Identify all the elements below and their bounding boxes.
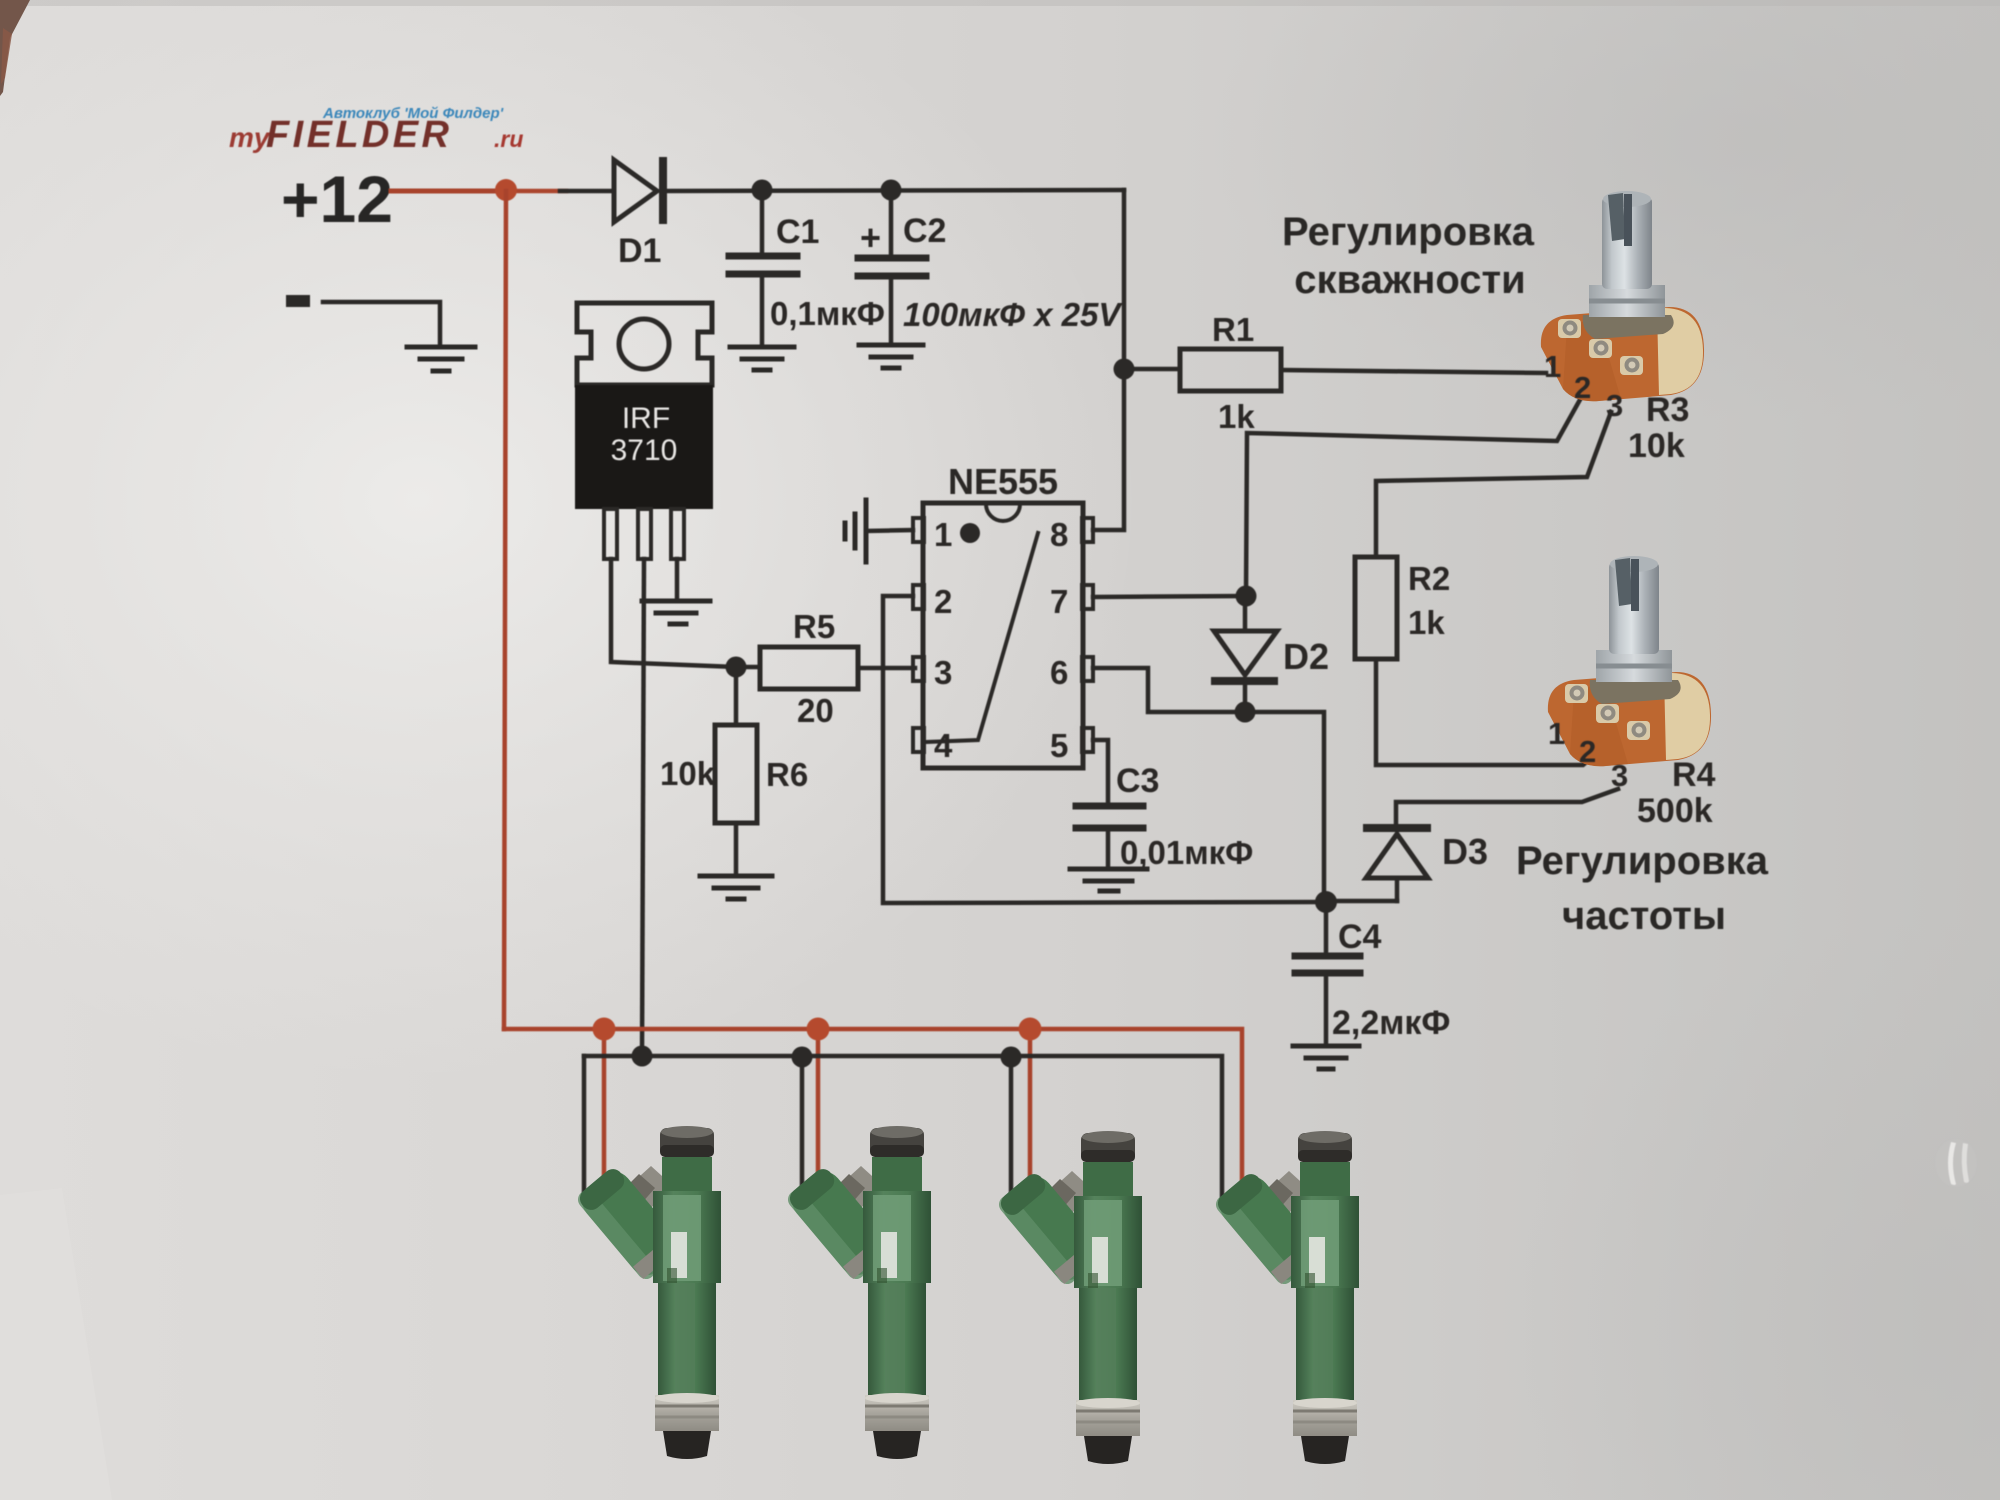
- capacitor C1: [729, 190, 797, 345]
- node red bus dot 2: [807, 1018, 830, 1041]
- svg-text:R6: R6: [766, 756, 808, 793]
- svg-text:0,01мкФ: 0,01мкФ: [1120, 834, 1253, 871]
- svg-text:Регулировка: Регулировка: [1516, 839, 1769, 883]
- ground (source): [642, 601, 710, 624]
- potentiometer R3 (photo): [1541, 191, 1704, 401]
- svg-text:C2: C2: [903, 212, 946, 250]
- capacitor C2 (electrolytic): [858, 190, 926, 343]
- resistor R2: [1355, 557, 1397, 659]
- node junction D2 bottom: [1235, 702, 1256, 723]
- svg-text:FIELDER: FIELDER: [266, 114, 452, 156]
- injector 3 (photo): [995, 1131, 1142, 1464]
- wire red drop injector1: [602, 1029, 607, 1183]
- node black bus dot 2: [792, 1047, 813, 1068]
- node black bus dot drain: [632, 1046, 653, 1067]
- resistor R1: [1180, 349, 1281, 391]
- diode D1: [614, 157, 667, 224]
- wire pin7 to D2 anode junction: [1093, 596, 1246, 597]
- op IC U1 NE555 body: [913, 503, 1093, 768]
- wire pin2 left and down to bottom rail: [883, 596, 1326, 903]
- svg-text:R1: R1: [1212, 311, 1254, 348]
- ground (R6): [700, 876, 772, 899]
- wire pin1 to ground: [866, 530, 913, 531]
- svg-text:2: 2: [1574, 370, 1591, 405]
- svg-text:+: +: [860, 217, 881, 258]
- svg-text:10k: 10k: [660, 755, 716, 792]
- wire pin6 right-down to D2 cathode rail: [1093, 668, 1324, 901]
- wire R2 bottom to pot R4 pin2: [1376, 659, 1597, 765]
- wire pot R3 pin3 down to R2: [1376, 412, 1611, 557]
- svg-text:NE555: NE555: [948, 461, 1058, 502]
- svg-text:500k: 500k: [1637, 792, 1713, 830]
- node junction C4: [1315, 891, 1337, 913]
- node junction R1 branch: [1114, 359, 1135, 380]
- svg-text:6: 6: [1050, 654, 1068, 691]
- svg-text:1k: 1k: [1408, 604, 1445, 641]
- injector 1 (photo): [574, 1126, 721, 1459]
- svg-text:5: 5: [1050, 727, 1068, 764]
- wire R1 branch: [1124, 367, 1180, 372]
- svg-text:1: 1: [1544, 349, 1561, 384]
- capacitor C4: [1295, 902, 1360, 1044]
- svg-text:R4: R4: [1672, 756, 1716, 794]
- ground (C4): [1293, 1046, 1359, 1069]
- wire top rail D1 to corner: [667, 190, 1124, 191]
- ground (C2): [859, 345, 923, 368]
- svg-text:3710: 3710: [611, 434, 678, 467]
- svg-text:3: 3: [1606, 388, 1623, 423]
- node junction pin7/D2: [1236, 586, 1257, 607]
- svg-text:2,2мкФ: 2,2мкФ: [1332, 1004, 1450, 1042]
- ground (pin1, left-pointing): [845, 500, 866, 562]
- node junction C2: [881, 180, 902, 201]
- svg-text:3: 3: [934, 654, 952, 691]
- svg-text:1k: 1k: [1218, 398, 1255, 435]
- svg-text:D2: D2: [1283, 636, 1329, 677]
- minus terminal: [286, 295, 310, 307]
- svg-text:R3: R3: [1646, 391, 1689, 429]
- svg-text:2: 2: [1579, 734, 1596, 769]
- wire pot R3 pin2 down to D2 anode: [1246, 396, 1582, 596]
- svg-text:R2: R2: [1408, 560, 1450, 597]
- potentiometer R4 (photo): [1548, 556, 1711, 766]
- resistor R5: [760, 647, 858, 689]
- node red bus dot 1: [593, 1018, 616, 1041]
- node junction R6 tap: [726, 657, 747, 678]
- wire black drop injector3: [1009, 1056, 1014, 1204]
- svg-text:1: 1: [934, 516, 952, 553]
- node red bus dot 3: [1019, 1018, 1042, 1041]
- svg-text:C3: C3: [1116, 762, 1159, 800]
- wire black drop injector1: [582, 1056, 587, 1200]
- wire gate leg down and right to R5: [611, 559, 760, 667]
- svg-text:2: 2: [934, 583, 952, 620]
- wire junction to diode anode (red fading): [506, 189, 566, 194]
- svg-text:D3: D3: [1442, 831, 1488, 872]
- wire pot R4 pin3 to D3 cathode: [1396, 789, 1618, 827]
- svg-text:IRF: IRF: [622, 402, 670, 435]
- wire drain leg long vertical to black bus: [642, 559, 644, 1056]
- svg-text:4: 4: [934, 727, 953, 764]
- ground (C3): [1070, 869, 1147, 891]
- svg-text:скважности: скважности: [1294, 258, 1525, 302]
- wire D3 anode to C4 junction: [1326, 899, 1397, 904]
- svg-text:Регулировка: Регулировка: [1282, 210, 1535, 254]
- wire red drop injector2: [816, 1029, 821, 1186]
- transistor Q1 IRF3710 (TO-220): [575, 303, 713, 559]
- wire top-rail corner down to pin8 riser: [1093, 190, 1124, 530]
- svg-text:8: 8: [1050, 516, 1068, 553]
- node red junction dot: [495, 179, 517, 201]
- capacitor C3: [1076, 806, 1143, 867]
- svg-text:10k: 10k: [1628, 427, 1685, 465]
- svg-text:100мкФ x 25V: 100мкФ x 25V: [903, 296, 1123, 333]
- wire R5 to pin3: [858, 666, 915, 671]
- node junction C1: [752, 180, 773, 201]
- paper emboss watermark: [1935, 1139, 1977, 1187]
- ground (minus): [407, 347, 475, 371]
- wire source leg to ground: [675, 559, 680, 600]
- svg-text:0,1мкФ: 0,1мкФ: [770, 295, 885, 332]
- resistor R6: [715, 667, 757, 873]
- svg-text:my: my: [229, 122, 271, 153]
- svg-text:20: 20: [797, 692, 834, 729]
- svg-text:C4: C4: [1338, 918, 1382, 956]
- wire red distribution bus: [504, 1029, 1242, 1185]
- ground (C1): [730, 347, 794, 370]
- wire red vertical +12 down to red bus: [504, 191, 506, 1029]
- wire R1 to pot R3 pin1: [1281, 370, 1546, 373]
- table sliver top-left corner: [0, 0, 30, 96]
- svg-text:7: 7: [1050, 583, 1068, 620]
- wire +12 to junction (red): [391, 189, 506, 194]
- wire pin5 down to C3: [1093, 740, 1108, 803]
- diode D3: [1363, 824, 1431, 901]
- svg-text:1: 1: [1548, 716, 1565, 751]
- svg-text:D1: D1: [618, 232, 661, 270]
- injector 2 (photo): [784, 1126, 931, 1459]
- wire red drop injector3: [1028, 1029, 1033, 1188]
- wire diode anode lead: [560, 189, 614, 194]
- svg-text:частоты: частоты: [1562, 894, 1726, 938]
- svg-text:+12: +12: [281, 162, 393, 236]
- wire black drop injector2: [800, 1056, 805, 1202]
- svg-text:R5: R5: [793, 608, 835, 645]
- svg-text:C1: C1: [776, 213, 819, 251]
- svg-text:3: 3: [1611, 758, 1628, 793]
- wire minus to ground: [323, 302, 440, 345]
- injector 4 (photo): [1212, 1131, 1359, 1464]
- wire black distribution bus: [584, 1056, 1222, 1200]
- node black bus dot 3: [1001, 1047, 1022, 1068]
- diode D2: [1211, 596, 1278, 712]
- svg-text:.ru: .ru: [494, 126, 523, 152]
